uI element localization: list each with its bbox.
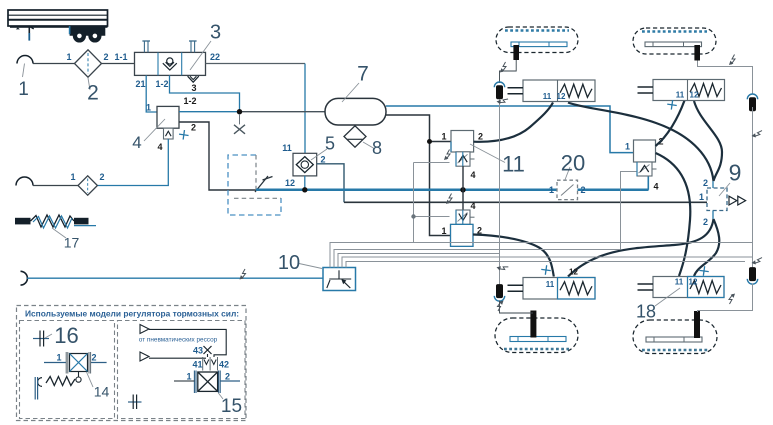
svg-text:12: 12 (690, 91, 699, 100)
wire emergency line to valve 4 port 4 (97, 139, 168, 186)
svg-text:2: 2 (91, 353, 96, 363)
wire electric supply line to ECU (27, 277, 323, 279)
wheel bottom-left (495, 318, 578, 353)
svg-text:11: 11 (675, 278, 684, 287)
wire filter to valve block 3 (102, 63, 135, 65)
relay emergency valve 9 (699, 160, 746, 228)
sensor wire TL down to ECU bus (499, 100, 501, 285)
wire reservoir supply line to modulators (386, 115, 451, 236)
filter (emergency) (70, 172, 104, 195)
hose right modulator to chamber TR port 11 (656, 101, 685, 147)
brake chamber top-left (523, 80, 595, 102)
svg-text:2: 2 (703, 178, 708, 188)
svg-text:1: 1 (441, 132, 446, 142)
trailer icon (8, 10, 108, 42)
svg-text:4: 4 (471, 170, 476, 180)
svg-text:4: 4 (654, 182, 659, 192)
valve 4 (132, 96, 196, 152)
test point cross at valve 4 port 2 (178, 129, 189, 140)
sensor wire BR to wheel (698, 284, 753, 313)
svg-text:20: 20 (561, 151, 585, 176)
sensor connector BL (496, 285, 502, 298)
svg-text:41: 41 (192, 360, 202, 370)
svg-text:1: 1 (441, 226, 446, 236)
svg-text:14: 14 (94, 384, 110, 400)
svg-text:1: 1 (18, 79, 29, 100)
brake chamber bottom-left (523, 278, 595, 300)
label 18 (636, 288, 680, 322)
modulator valve 11 lower (441, 201, 482, 246)
svg-text:4: 4 (132, 133, 141, 152)
hose chamber TL port 12 to relay 9 (568, 103, 714, 182)
test connection (right box) (128, 395, 142, 410)
svg-text:2: 2 (225, 372, 230, 382)
svg-text:2: 2 (703, 217, 708, 227)
drain valve 8 (344, 126, 382, 158)
regulator 15 (139, 325, 242, 418)
control line to relay 9 (344, 201, 707, 203)
hose chamber TR port 12 to relay 9 (694, 101, 722, 181)
svg-text:12: 12 (557, 92, 566, 101)
svg-text:1: 1 (70, 172, 75, 182)
svg-text:2: 2 (103, 52, 108, 62)
right sensor rail (752, 107, 754, 268)
brake chamber top-right (653, 80, 725, 101)
svg-text:3: 3 (210, 22, 221, 44)
wire reservoir service line (386, 106, 634, 153)
wire port 22 to valve 5 (206, 63, 306, 65)
wire port 21 down to valve 4 (146, 75, 157, 112)
svg-text:1-2: 1-2 (155, 79, 168, 89)
svg-text:43: 43 (193, 346, 203, 356)
svg-text:7: 7 (357, 63, 369, 86)
ECU wiring bus (330, 163, 753, 268)
pressure sensor 20 (549, 151, 586, 200)
sensor connector BR (749, 268, 755, 281)
svg-text:11: 11 (676, 91, 685, 100)
exhaust port 4 of valve 4 (157, 128, 173, 152)
coupling head (emergency) (16, 177, 33, 186)
hose relay 9 to chamber BR port 12 (694, 219, 719, 276)
wire valve 4 port 2 mechanical link (179, 122, 256, 190)
svg-text:1: 1 (186, 372, 191, 382)
test cross BL (541, 265, 552, 276)
coupling head 1 (17, 56, 33, 101)
hose modulator upper to chamber TL port 11 (474, 103, 553, 142)
svg-text:1: 1 (56, 353, 61, 363)
svg-text:1-1: 1-1 (114, 52, 127, 62)
svg-text:2: 2 (580, 185, 585, 195)
two-way valve 5 (282, 134, 335, 189)
svg-text:11: 11 (502, 152, 525, 177)
svg-text:2: 2 (321, 155, 326, 165)
svg-text:2: 2 (87, 82, 99, 105)
svg-text:2: 2 (478, 132, 483, 142)
svg-text:2: 2 (191, 123, 196, 133)
wire valve 4 port 1-2 to reservoir (179, 111, 240, 113)
svg-text:1: 1 (146, 103, 151, 113)
legend frame (17, 306, 247, 421)
svg-text:5: 5 (325, 134, 335, 154)
regulator lever (255, 176, 273, 192)
sensor wire TR (698, 61, 753, 95)
svg-text:1: 1 (625, 142, 630, 152)
svg-text:15: 15 (221, 396, 242, 417)
junction node modulators port4 (460, 187, 465, 192)
svg-text:21: 21 (135, 79, 145, 89)
svg-text:2: 2 (99, 172, 104, 182)
svg-text:3: 3 (191, 83, 196, 93)
modulator valve 11 upper (441, 131, 483, 181)
filter 2 (66, 50, 108, 105)
wheel top-right (633, 28, 716, 54)
svg-text:1: 1 (699, 192, 704, 202)
svg-text:10: 10 (278, 252, 300, 274)
wire coupling to emergency filter (33, 185, 78, 187)
hose modulator lower to chamber BL port 11 (473, 235, 554, 277)
svg-text:9: 9 (729, 160, 742, 186)
test connection 16 (33, 323, 79, 348)
hose relay 9 to chamber BL port 12 (568, 219, 714, 277)
svg-text:1: 1 (549, 185, 554, 195)
svg-text:1: 1 (66, 52, 71, 62)
svg-text:22: 22 (210, 52, 220, 62)
svg-text:4: 4 (471, 201, 476, 211)
brake-force regulated line (256, 189, 557, 192)
svg-text:4: 4 (157, 142, 162, 152)
sensor connector TR (747, 94, 757, 99)
svg-text:12: 12 (569, 268, 578, 277)
wheel bottom-right (633, 320, 717, 354)
dashed option outline blue (228, 155, 281, 215)
wire supply coupling to filter (33, 63, 75, 65)
test cross TR (667, 99, 678, 110)
wire valve 5 port 2 to relay control (317, 164, 344, 203)
regulator 14 (35, 352, 109, 400)
svg-text:17: 17 (64, 235, 80, 251)
wire valve 5 port 12 down (304, 176, 306, 190)
svg-text:42: 42 (219, 360, 229, 370)
valve block 3 (114, 22, 221, 94)
svg-text:16: 16 (54, 323, 78, 348)
svg-text:12: 12 (285, 178, 295, 188)
bus tap arrow BL (497, 262, 509, 272)
junction node valve5/12 (302, 187, 307, 192)
sensor wire BL to wheel (500, 301, 534, 314)
svg-text:8: 8 (372, 138, 382, 158)
svg-text:11: 11 (543, 92, 552, 101)
drain test X below junction (234, 114, 245, 134)
svg-text:11: 11 (282, 143, 292, 153)
wire port 1-2 of block 3 down to junction (170, 75, 240, 110)
hose right modulator to chamber BR port 11 (656, 153, 691, 276)
junction node (237, 109, 242, 114)
modulator valve right (625, 137, 664, 192)
electronic unit 10 (278, 252, 356, 291)
dashed option outline gray (234, 155, 281, 198)
coiled cable 17 (15, 215, 96, 251)
svg-text:18: 18 (636, 302, 656, 322)
label 11 (470, 144, 525, 177)
svg-text:12: 12 (689, 278, 698, 287)
wheel top-left (496, 27, 578, 53)
sensor wire TL (500, 60, 517, 83)
sensor connector TL (494, 82, 504, 87)
svg-text:Используемые модели регулятора: Используемые модели регулятора тормозных… (25, 309, 239, 319)
control coupling (electric) (21, 271, 28, 285)
brake chamber bottom-right (653, 277, 724, 298)
reservoir 7 (325, 63, 386, 126)
wire modulator port 4 chain (462, 166, 464, 190)
svg-text:1-2: 1-2 (183, 96, 196, 106)
svg-text:11: 11 (546, 280, 555, 289)
test cross BR (699, 266, 710, 277)
svg-text:от пневматических рессор: от пневматических рессор (139, 337, 218, 344)
